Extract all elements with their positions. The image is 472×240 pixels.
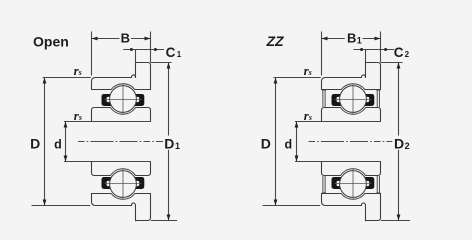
svg-text:ZZ: ZZ [266,33,285,49]
B extension line left [91,32,93,76]
svg-text:rs: rs [304,63,312,78]
svg-text:1: 1 [357,35,362,45]
D bottom extension line (right) [263,205,321,207]
D2 arrows [397,63,401,69]
D1 arrows [167,63,171,69]
B1 extension line left [321,32,323,76]
d bottom extension / bore line [64,161,151,163]
label D2 with mask [392,136,410,150]
B dimension line [92,38,151,40]
D1 top extension [151,62,172,64]
svg-text:d: d [54,138,62,152]
B1 dimension line [322,38,381,40]
d dimension line (right) [296,122,298,162]
D arrows right [274,78,278,84]
D top extension line (right) [274,77,321,79]
svg-text:d: d [284,138,292,152]
bearing cross-section right [322,62,381,221]
svg-text:D: D [164,135,174,151]
centerline right [309,141,395,143]
svg-text:C: C [166,45,176,60]
svg-text:rs: rs [304,108,312,123]
C1 dimension line [123,49,164,51]
svg-text:Open: Open [33,34,69,50]
D top extension line [43,77,91,79]
d dimension line [65,122,67,162]
svg-text:2: 2 [405,50,410,59]
B arrows [92,37,98,41]
D2 dimension line [398,63,400,221]
svg-text:rs: rs [74,108,82,123]
svg-text:2: 2 [405,141,410,151]
svg-text:C: C [394,45,404,60]
D arrows [43,78,47,84]
B1 extension line right [380,32,382,63]
svg-text:rs: rs [74,63,82,78]
svg-text:1: 1 [177,50,182,59]
shields upper ball [322,90,380,107]
label D1 with mask [163,136,180,150]
bearing cross-section left [92,62,151,221]
D2 top extension [381,62,403,64]
B extension line right [150,32,152,63]
D dimension line [44,78,46,206]
svg-text:D: D [30,135,40,151]
centerline left [78,141,164,143]
C2 extension (flange face up) [365,50,367,63]
D1 dimension line [168,63,170,221]
B1 arrows [322,37,328,41]
d bottom extension / bore line (right) [295,161,381,163]
C1 extension (flange face up) [135,50,137,63]
d top extension / bore line (right) [295,121,381,123]
C2 dimension line [354,49,395,51]
D bottom extension line [32,205,91,207]
svg-text:D: D [261,135,271,151]
C2 dots [360,48,363,51]
d top extension / bore line [64,121,151,123]
svg-text:B: B [121,30,130,45]
svg-text:D: D [394,135,404,151]
D dimension line (right) [275,78,277,206]
shields lower ball [322,176,380,193]
d arrows right [295,122,299,128]
D1 bottom extension [151,220,177,222]
C1 dots [130,48,133,51]
d arrows [64,122,68,128]
svg-text:1: 1 [175,141,180,151]
svg-text:B: B [347,30,356,45]
D2 bottom extension [381,220,410,222]
